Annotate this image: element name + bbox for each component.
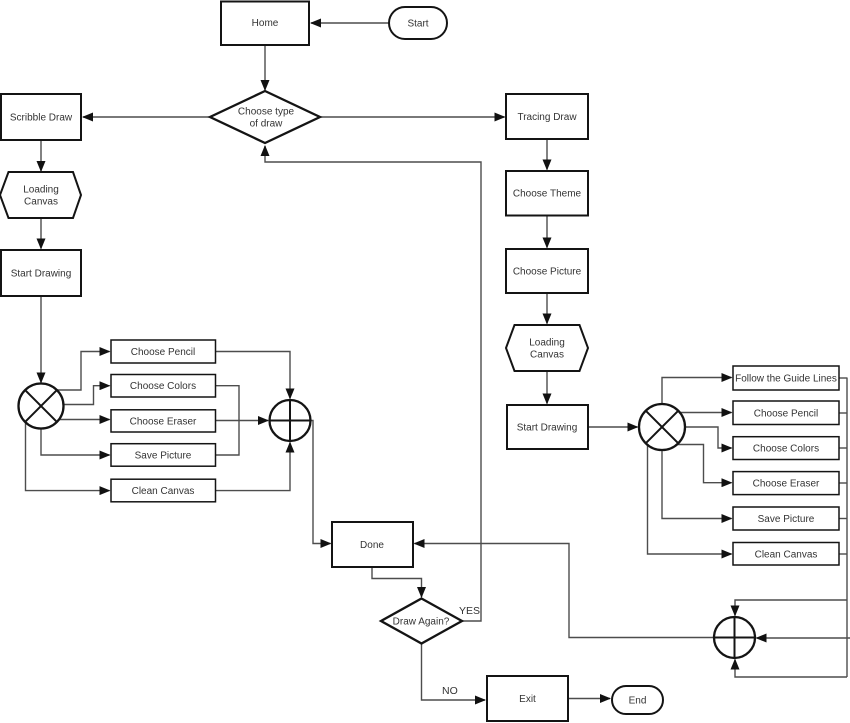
- svg-text:Scribble Draw: Scribble Draw: [10, 113, 73, 124]
- node Choose Picture: [506, 249, 588, 293]
- wire bus to plusR top: [735, 600, 847, 616]
- wire Choose Picture to Loading Canvas right: [546, 294, 548, 324]
- wire Home to Choose-type diamond: [264, 46, 266, 91]
- wire stub Clean Canvas right to bus: [839, 553, 847, 555]
- wire bus vertical: [846, 378, 848, 678]
- node Choose Pencil left: [111, 340, 216, 363]
- wire Choose Colors to merge: [216, 386, 239, 421]
- wire Choose Pencil to plus junction top: [216, 352, 290, 399]
- svg-text:Choose Picture: Choose Picture: [513, 267, 582, 278]
- svg-text:Clean Canvas: Clean Canvas: [132, 486, 195, 497]
- svg-text:Start: Start: [407, 19, 428, 30]
- wire XR to Choose Eraser right: [677, 445, 732, 483]
- wire XR to Save Picture right: [662, 450, 732, 519]
- wire diamond to Scribble Draw: [83, 116, 209, 118]
- node Loading Canvas right hexagon: [506, 325, 588, 371]
- svg-text:Draw Again?: Draw Again?: [393, 617, 450, 628]
- wire Scribble Draw to Loading Canvas: [40, 141, 42, 171]
- node Draw Again diamond: [381, 599, 462, 644]
- svg-text:Start Drawing: Start Drawing: [11, 269, 72, 280]
- wire stub Choose Colors right to bus: [839, 447, 847, 449]
- wire edge to plusR right: [757, 637, 850, 639]
- svg-text:Follow the Guide Lines: Follow the Guide Lines: [735, 374, 837, 385]
- node Start: [389, 7, 447, 39]
- wire YES feedback to Choose-type diamond: [265, 146, 481, 621]
- wire plusR to Done right: [415, 544, 715, 638]
- wire Loading Canvas right to Start Drawing right: [546, 372, 548, 404]
- wire Clean Canvas to plus junction bottom: [216, 443, 290, 491]
- wire plus junction to Done left: [311, 421, 331, 544]
- svg-text:Choose Pencil: Choose Pencil: [131, 347, 195, 358]
- junction XR circle: [639, 404, 685, 450]
- wire XL to Save Picture: [41, 429, 110, 456]
- wire Start Drawing to X junction left: [40, 297, 42, 383]
- node Choose Colors left: [111, 375, 216, 398]
- svg-text:Home: Home: [252, 18, 279, 29]
- node Save Picture right: [733, 507, 839, 530]
- wire XL to Choose Colors: [64, 386, 110, 405]
- wire stub Choose Eraser right to bus: [839, 482, 847, 484]
- wire XR to Follow the Guide Lines: [662, 378, 732, 405]
- wire Choose Eraser to plus junction left: [216, 420, 268, 422]
- svg-text:Exit: Exit: [519, 694, 536, 705]
- wire Loading Canvas to Start Drawing left: [40, 219, 42, 249]
- node Done: [332, 522, 413, 567]
- node Clean Canvas right: [733, 543, 839, 566]
- svg-text:Clean Canvas: Clean Canvas: [755, 550, 818, 561]
- wire XL to Choose Pencil: [57, 352, 110, 391]
- svg-text:Save Picture: Save Picture: [758, 514, 815, 525]
- wire Start to Home: [311, 22, 389, 24]
- junction XL circle: [19, 384, 64, 429]
- node Home: [221, 2, 309, 46]
- svg-text:Start Drawing: Start Drawing: [517, 423, 578, 434]
- svg-text:Canvas: Canvas: [530, 350, 564, 361]
- svg-text:Choose Eraser: Choose Eraser: [753, 479, 820, 490]
- svg-text:Tracing Draw: Tracing Draw: [517, 112, 577, 123]
- node Clean Canvas left: [111, 479, 216, 502]
- node Start Drawing left: [1, 250, 81, 296]
- node Exit: [487, 676, 568, 721]
- node End: [612, 686, 663, 714]
- wire stub Choose Pencil right to bus: [839, 412, 847, 414]
- wire XR to Clean Canvas right: [648, 445, 732, 554]
- wire Exit to End: [569, 698, 610, 700]
- node Choose Pencil right: [733, 401, 839, 425]
- wire XR to Choose Pencil right: [680, 412, 732, 414]
- wire bus to plusR bottom: [735, 660, 847, 678]
- wire stub Follow to bus: [839, 377, 847, 379]
- svg-text:End: End: [629, 696, 647, 707]
- node Choose Eraser right: [733, 472, 839, 495]
- wire XL to Choose Eraser: [59, 419, 110, 421]
- wire Choose Theme to Choose Picture: [546, 217, 548, 248]
- svg-text:Done: Done: [360, 540, 384, 551]
- node Follow the Guide Lines: [733, 366, 839, 390]
- node Save Picture left: [111, 444, 216, 467]
- svg-text:Loading: Loading: [529, 338, 565, 349]
- wire stub Save Picture right to bus: [839, 518, 847, 520]
- node Start Drawing right: [507, 405, 588, 449]
- svg-text:YES: YES: [459, 605, 480, 617]
- svg-text:Choose Colors: Choose Colors: [130, 381, 196, 392]
- node Scribble Draw: [1, 94, 81, 140]
- svg-text:Loading: Loading: [23, 185, 59, 196]
- svg-text:Choose Eraser: Choose Eraser: [130, 416, 197, 427]
- wire Tracing Draw to Choose Theme: [546, 140, 548, 170]
- svg-text:Choose Pencil: Choose Pencil: [754, 409, 818, 420]
- svg-text:Choose type: Choose type: [238, 107, 295, 118]
- wire XR to Choose Colors right: [685, 427, 732, 448]
- node Choose Eraser left: [111, 410, 216, 432]
- junction plusR circle: [714, 617, 755, 658]
- wire diamond to Tracing Draw: [321, 116, 505, 118]
- wire Save Picture to merge: [216, 421, 239, 456]
- node Tracing Draw: [506, 94, 588, 139]
- node Choose Theme: [506, 171, 588, 216]
- svg-text:of draw: of draw: [250, 119, 284, 130]
- svg-text:Canvas: Canvas: [24, 197, 58, 208]
- node Loading Canvas left hexagon: [0, 172, 81, 218]
- node Choose type of draw diamond: [210, 91, 320, 143]
- wire XL to Clean Canvas: [26, 422, 110, 491]
- junction plusL circle: [270, 400, 311, 441]
- wire Done to Draw Again diamond: [372, 568, 422, 597]
- svg-text:Choose Theme: Choose Theme: [513, 189, 582, 200]
- svg-text:NO: NO: [442, 685, 458, 697]
- node Choose Colors right: [733, 437, 839, 460]
- svg-text:Choose Colors: Choose Colors: [753, 444, 819, 455]
- wire Start Drawing right to X junction right: [589, 426, 638, 428]
- wire NO to Exit: [422, 644, 486, 700]
- svg-text:Save Picture: Save Picture: [135, 450, 192, 461]
